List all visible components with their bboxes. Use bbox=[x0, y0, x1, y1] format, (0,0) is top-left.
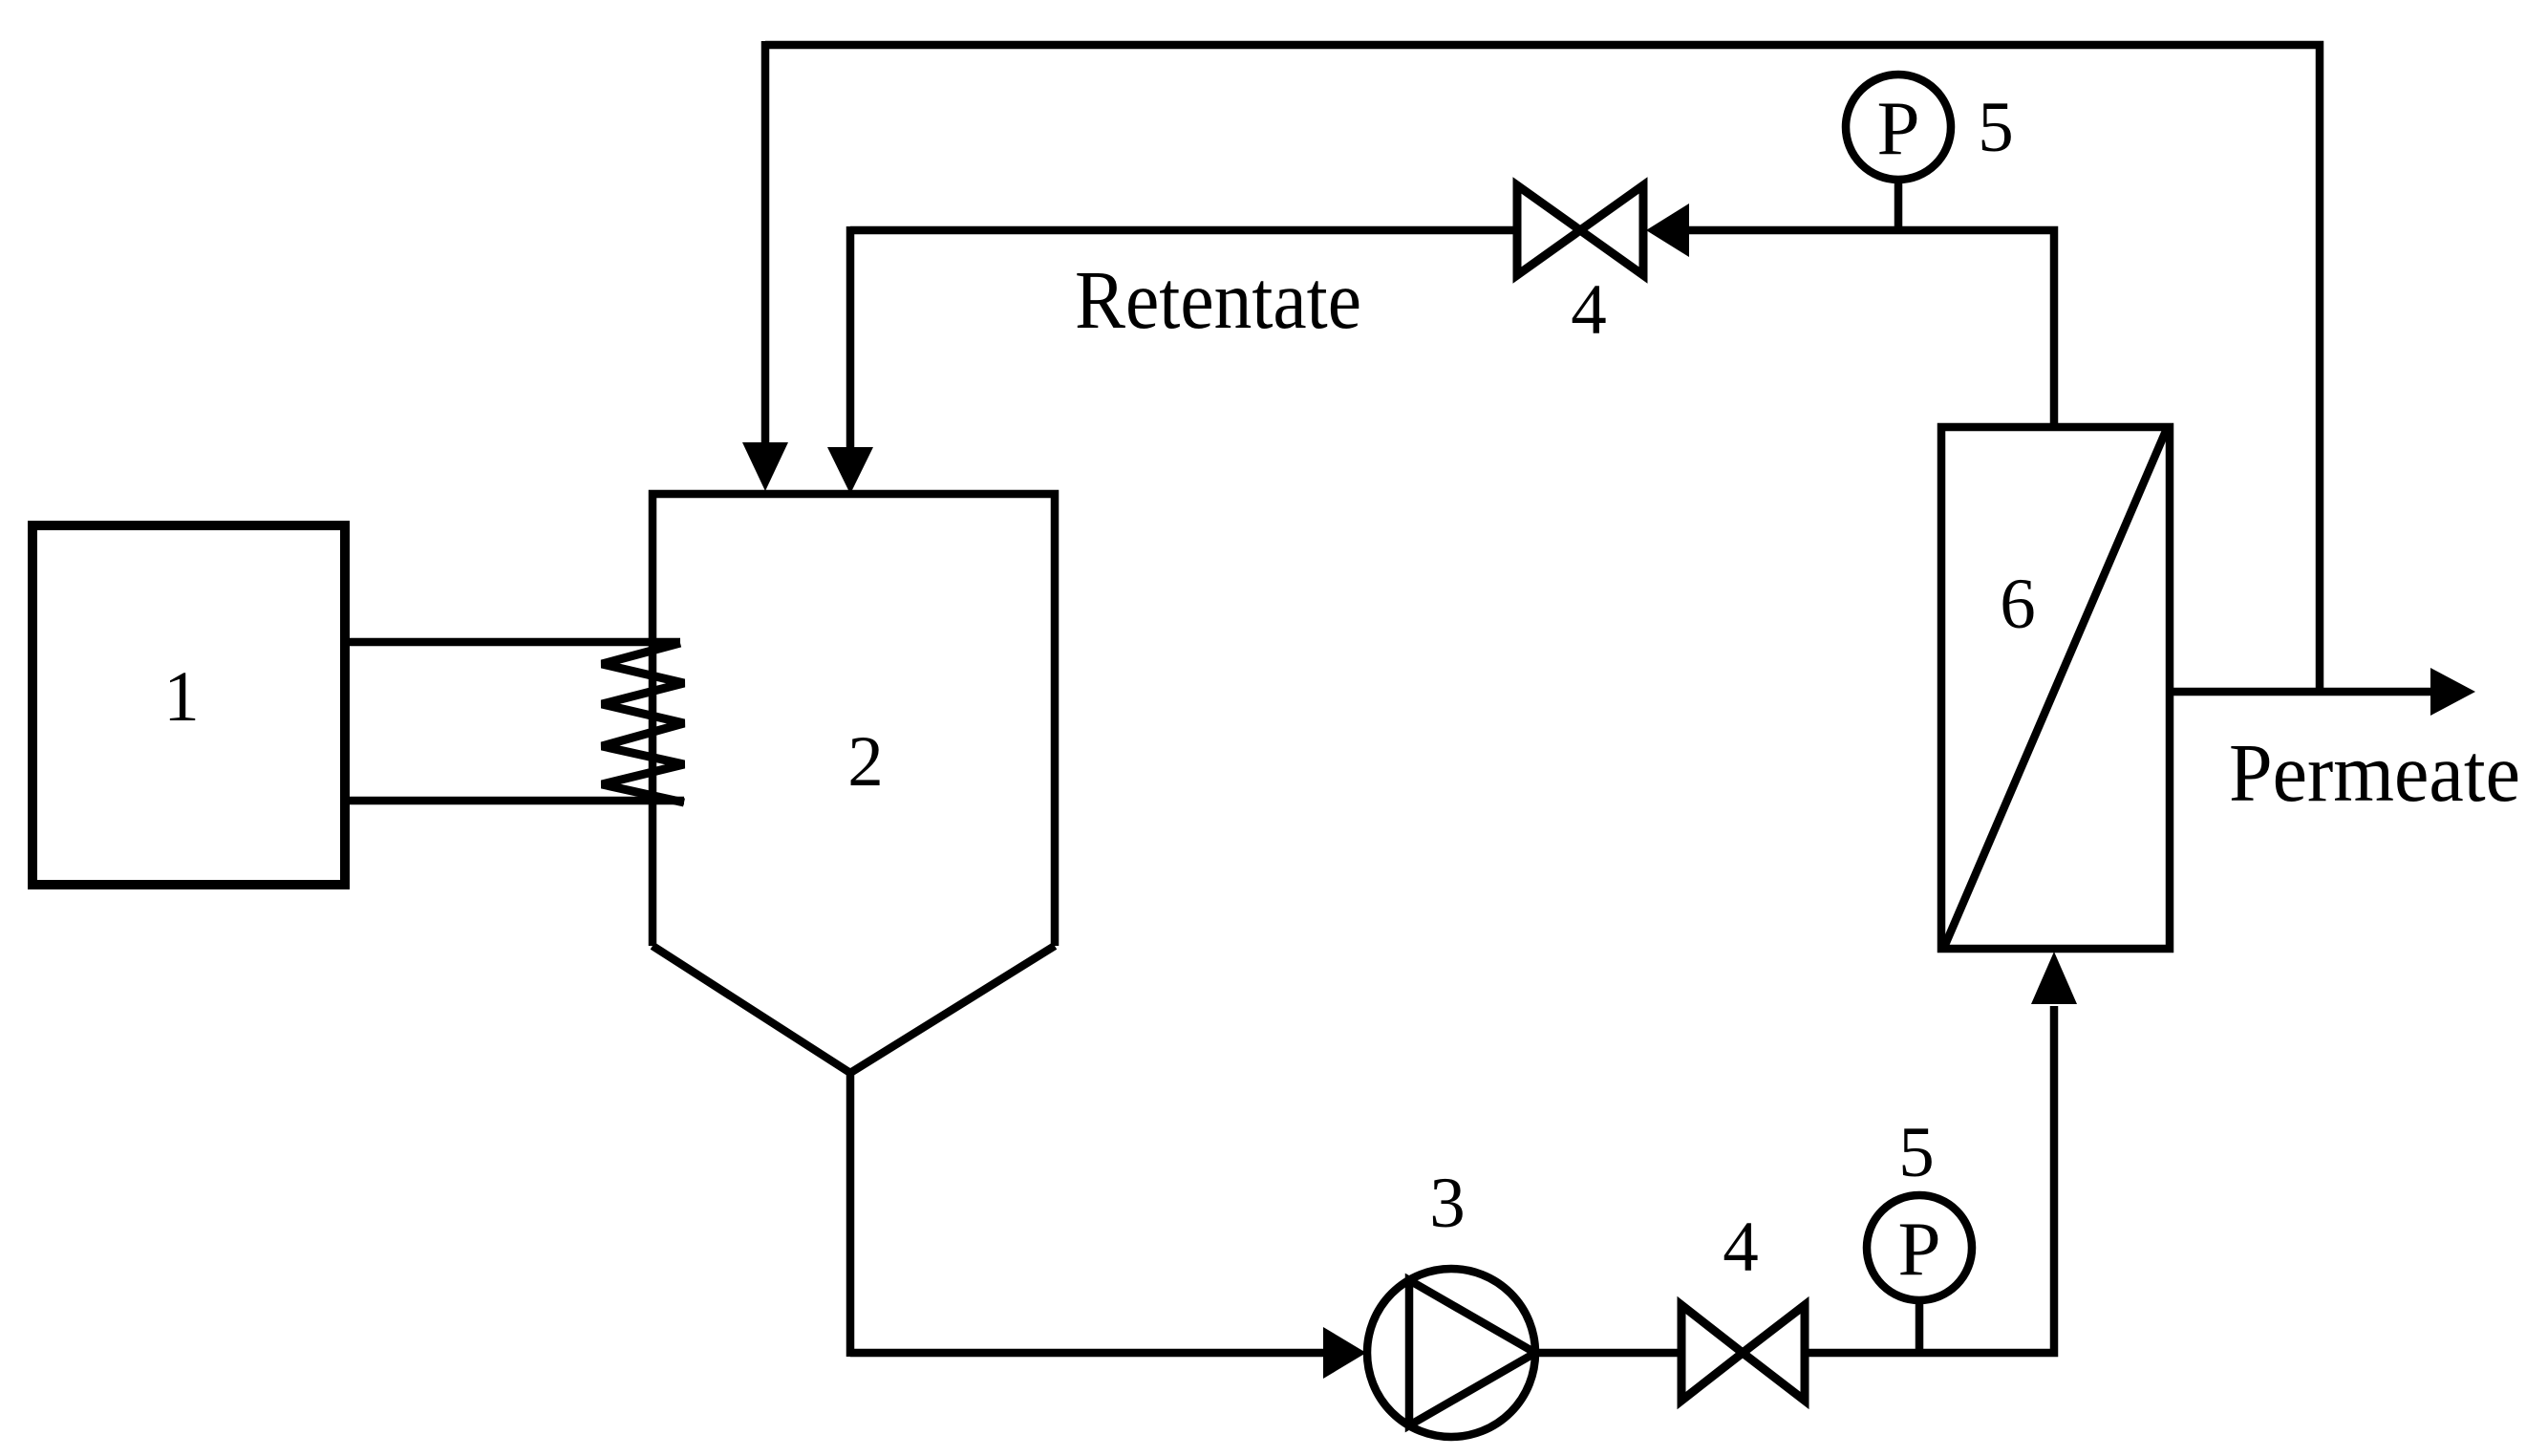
svg-text:5: 5 bbox=[1898, 1113, 1935, 1192]
svg-text:1: 1 bbox=[163, 657, 200, 737]
svg-text:4: 4 bbox=[1723, 1208, 1759, 1287]
svg-text:3: 3 bbox=[1429, 1164, 1466, 1243]
svg-text:2: 2 bbox=[847, 722, 884, 802]
svg-text:6: 6 bbox=[2000, 565, 2036, 644]
svg-text:Permeate: Permeate bbox=[2229, 726, 2520, 819]
svg-text:P: P bbox=[1876, 85, 1919, 171]
svg-text:4: 4 bbox=[1571, 270, 1607, 350]
svg-text:P: P bbox=[1897, 1206, 1940, 1292]
svg-text:Retentate: Retentate bbox=[1075, 253, 1361, 346]
svg-text:5: 5 bbox=[1978, 88, 2014, 167]
